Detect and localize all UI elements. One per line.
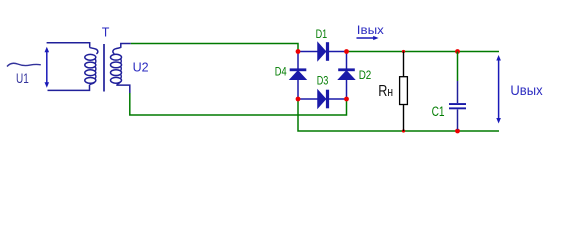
svg-text:D4: D4 xyxy=(275,64,287,78)
svg-text:T: T xyxy=(102,26,110,40)
svg-text:Iвых: Iвых xyxy=(357,23,384,37)
svg-text:D1: D1 xyxy=(316,27,328,41)
svg-text:U1: U1 xyxy=(16,70,29,86)
svg-text:Uвых: Uвых xyxy=(510,83,542,98)
svg-text:D3: D3 xyxy=(317,74,329,88)
svg-text:Rн: Rн xyxy=(378,83,393,100)
svg-text:U2: U2 xyxy=(133,61,149,75)
svg-text:D2: D2 xyxy=(359,68,372,82)
svg-text:C1: C1 xyxy=(432,104,445,119)
